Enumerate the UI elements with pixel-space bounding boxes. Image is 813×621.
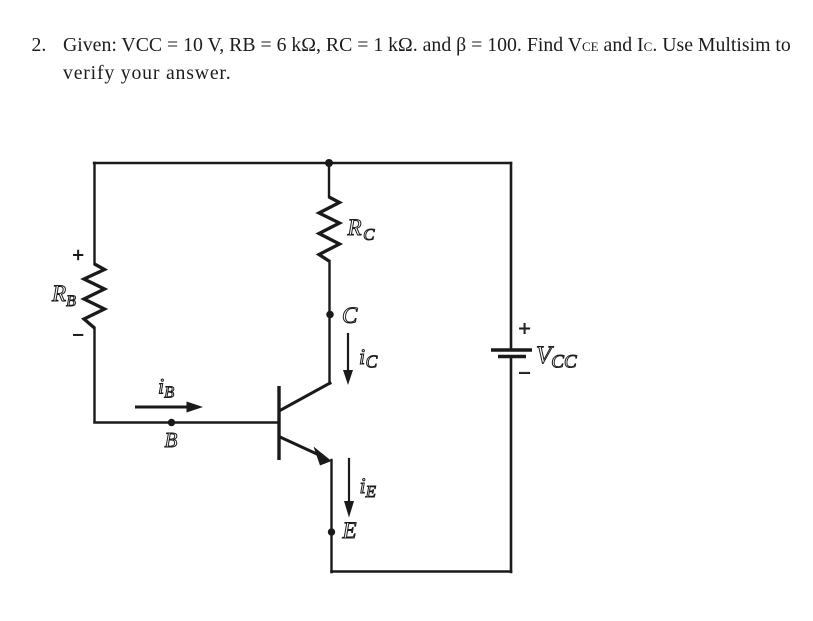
wire collector lead (328, 261, 330, 384)
node B dot (168, 419, 175, 426)
svg-text:RC: RC (347, 215, 376, 244)
transistor Q1 collector diagonal (280, 383, 330, 411)
resistor RC (319, 197, 340, 261)
wire left rail upper (93, 163, 95, 264)
arrow iC (343, 334, 353, 385)
svg-text:iC: iC (359, 344, 378, 372)
svg-text:RB: RB (51, 281, 76, 310)
wire right rail lower (510, 357, 513, 573)
node E dot (328, 528, 335, 535)
svg-text:B: B (165, 428, 178, 452)
svg-text:C: C (342, 303, 358, 328)
wire bottom rail (332, 570, 512, 573)
svg-text:−: − (519, 361, 531, 385)
battery VCC short plate (498, 355, 526, 359)
svg-text:iB: iB (158, 374, 174, 402)
resistor RB (84, 264, 105, 328)
arrow iE (344, 459, 354, 518)
wire left rail lower (93, 328, 95, 422)
transistor Q1 emitter diagonal with arrow (280, 437, 332, 466)
battery VCC long plate (491, 348, 532, 352)
wire top rail (94, 162, 511, 164)
wire right rail upper (510, 163, 513, 350)
svg-text:−: − (73, 325, 84, 347)
svg-text:+: + (519, 317, 531, 341)
arrow iB (137, 402, 204, 413)
transistor Q1 base bar (277, 386, 280, 460)
svg-text:E: E (342, 518, 357, 543)
svg-text:+: + (73, 245, 84, 267)
node C dot (326, 311, 334, 319)
junction dot top of RC (325, 159, 333, 167)
svg-text:iE: iE (360, 473, 377, 501)
wire RC top lead (328, 163, 330, 197)
svg-text:VCC: VCC (536, 342, 577, 373)
wire emitter lead (330, 460, 332, 572)
wire base (95, 421, 279, 423)
